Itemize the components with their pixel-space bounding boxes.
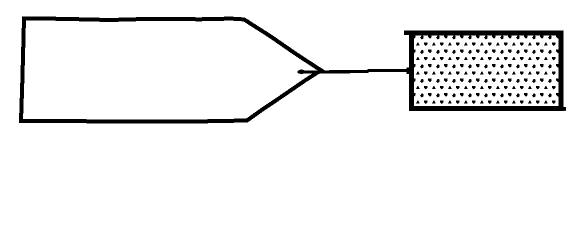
pentagon pointer shape [21, 18, 321, 121]
wire from pointer tip to shaded box [299, 70, 412, 72]
wire start blob [298, 70, 304, 75]
shaded box [404, 31, 566, 111]
small scan tick at box top-left [404, 31, 412, 36]
scan overshoot at box bottom-right [560, 107, 566, 111]
junction blob where wire meets box [407, 68, 414, 75]
